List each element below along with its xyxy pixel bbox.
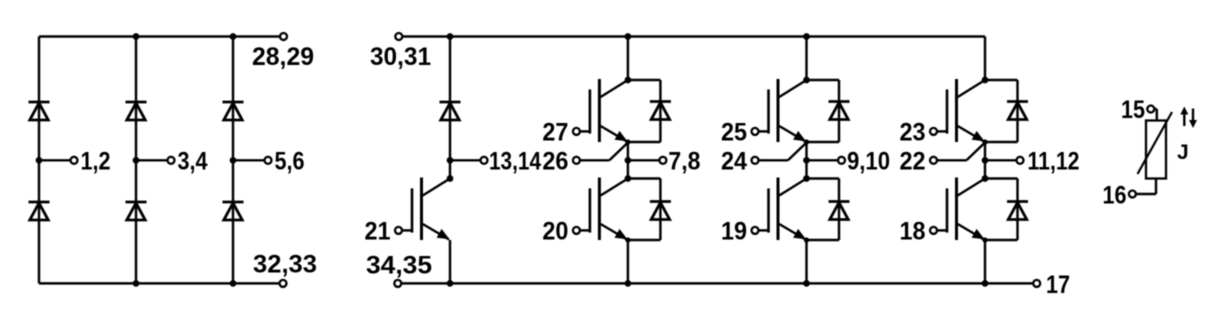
junction leg1 emitter node	[625, 139, 630, 144]
terminal 32,33	[280, 280, 287, 287]
diode D2	[126, 102, 147, 120]
wire phase stub 9,10	[807, 159, 838, 161]
diode D10 freewheel upper	[829, 102, 850, 120]
wire gate 25 lead	[758, 130, 769, 132]
diode D1	[29, 102, 50, 120]
junction leg1 phase node	[625, 157, 632, 164]
label 3,4	[178, 147, 208, 175]
wire leg2 diode branch return lower	[807, 239, 840, 241]
junction bottom bus leg3	[982, 280, 989, 287]
terminal 5,6	[265, 157, 272, 164]
label 22	[900, 147, 926, 175]
svg-text:26: 26	[542, 147, 568, 175]
junction leg1 top collector node	[625, 77, 632, 84]
label 15	[1121, 96, 1145, 124]
junction rectifier bottom leg2	[133, 280, 140, 287]
svg-text:27: 27	[542, 118, 568, 146]
wire rectifier top bus DC+	[39, 35, 284, 37]
label 5,6	[275, 147, 305, 175]
transistor Q1 upper IGBT	[590, 79, 628, 142]
label 16	[1103, 182, 1127, 210]
svg-text:20: 20	[542, 217, 568, 245]
wire aux 22 diagonal	[967, 143, 985, 160]
junction node AC2	[133, 157, 140, 164]
terminal 27 gate	[573, 128, 580, 135]
wire AC stub 2	[136, 159, 167, 161]
junction rectifier top leg3	[230, 33, 237, 40]
wire chopper collector	[449, 160, 451, 178]
thermistor J diagonal	[1138, 112, 1173, 174]
junction leg3 top collector node	[982, 77, 989, 84]
terminal 16	[1129, 191, 1136, 198]
wire leg2 diode branch top	[807, 79, 840, 81]
terminal 3,4	[168, 157, 175, 164]
wire gate 20 lead	[579, 229, 590, 231]
terminal 7,8	[659, 157, 666, 164]
junction top bus leg2	[803, 33, 810, 40]
terminal 28,29	[280, 33, 287, 40]
junction bottom bus leg2	[803, 280, 810, 287]
svg-text:13,14: 13,14	[489, 147, 541, 175]
terminal 11,12	[1017, 157, 1024, 164]
wire leg3 diode branch top	[985, 79, 1018, 81]
terminal 17	[1033, 280, 1040, 287]
svg-text:19: 19	[721, 217, 747, 245]
svg-text:18: 18	[900, 217, 926, 245]
junction top bus chopper	[447, 33, 454, 40]
wire rectifier leg 2	[135, 37, 137, 284]
svg-text:15: 15	[1121, 96, 1145, 124]
arrow up	[1180, 107, 1188, 127]
terminal 30,31	[395, 33, 402, 40]
transistor Q4 lower IGBT	[769, 178, 807, 241]
label 20	[542, 217, 568, 245]
junction leg2 bottom emitter node	[804, 237, 809, 242]
wire to terminal 17	[985, 282, 1033, 284]
wire rectifier leg 1	[38, 37, 40, 284]
label 30,31	[370, 43, 431, 71]
wire phase stub 7,8	[628, 159, 659, 161]
label 13,14	[489, 147, 541, 175]
diode D6	[223, 202, 244, 220]
wire leg1 diode branch bottom top	[628, 177, 661, 179]
svg-text:11,12: 11,12	[1028, 147, 1080, 175]
label 19	[721, 217, 747, 245]
junction chopper mid node	[447, 157, 454, 164]
diode D7 chopper	[440, 102, 461, 120]
diode D8 freewheel upper	[650, 102, 671, 120]
wire aux 26 diagonal	[609, 143, 627, 160]
terminal 13,14	[481, 157, 488, 164]
wire leg2 emitter drop	[805, 240, 807, 283]
terminal 23 gate	[930, 128, 937, 135]
label 26	[542, 147, 568, 175]
wire inverter top bus DC+	[402, 35, 985, 37]
label 23	[900, 118, 926, 146]
wire chopper leg upper	[449, 37, 451, 161]
thermistor J body	[1146, 121, 1166, 179]
wire leg2 diode branch vertical upper	[838, 80, 840, 142]
wire leg3 mid segment	[984, 142, 986, 179]
junction rectifier top leg2	[133, 33, 140, 40]
terminal 1,2	[71, 157, 78, 164]
terminal 24 aux emitter	[752, 157, 759, 164]
svg-text:1,2: 1,2	[81, 147, 111, 175]
diode D3	[223, 102, 244, 120]
terminal 21 gate	[395, 227, 402, 234]
svg-text:30,31: 30,31	[370, 43, 431, 71]
wire gate 19 lead	[758, 229, 769, 231]
label 25	[721, 118, 747, 146]
label 1,2	[81, 147, 111, 175]
wire leg1 diode branch return upper	[628, 141, 661, 143]
svg-text:34,35: 34,35	[366, 252, 432, 280]
junction bottom bus chopper	[447, 280, 454, 287]
wire leg2 diode branch bottom top	[807, 177, 840, 179]
wire phase stub 11,12	[985, 159, 1016, 161]
label 17	[1046, 271, 1070, 299]
wire leg1 collector drop	[627, 37, 629, 81]
junction leg3 emitter node	[982, 139, 987, 144]
wire leg1 diode branch return lower	[628, 239, 661, 241]
junction leg3 bottom collector node	[982, 175, 989, 182]
label 32,33	[253, 251, 317, 279]
diode D5	[126, 202, 147, 220]
label 24	[721, 147, 747, 175]
wire leg2 mid segment	[805, 142, 807, 179]
diode D9 freewheel lower	[650, 202, 671, 220]
junction leg1 bottom collector node	[625, 175, 632, 182]
svg-text:3,4: 3,4	[178, 147, 208, 175]
junction leg3 phase node	[982, 157, 989, 164]
junction chopper collector	[447, 175, 454, 182]
wire terminal 15 lead	[1154, 109, 1157, 121]
terminal 15	[1147, 106, 1154, 113]
junction leg2 bottom collector node	[803, 175, 810, 182]
svg-text:32,33: 32,33	[253, 251, 317, 279]
wire leg3 diode branch return lower	[985, 239, 1018, 241]
wire leg2 collector drop	[805, 37, 807, 81]
wire leg3 diode branch return upper	[985, 141, 1018, 143]
wire leg1 diode branch vertical upper	[659, 80, 661, 142]
diode D11 freewheel lower	[829, 202, 850, 220]
transistor Q3 upper IGBT	[769, 79, 807, 142]
transistor Q6 lower IGBT	[947, 178, 985, 241]
label 11,12	[1028, 147, 1080, 175]
wire rectifier bottom bus DC-	[39, 282, 283, 284]
junction node AC1	[36, 157, 43, 164]
terminal 25 gate	[752, 128, 759, 135]
arrow down	[1189, 109, 1197, 129]
junction rectifier bottom leg3	[230, 280, 237, 287]
wire terminal 16 lead	[1136, 179, 1156, 195]
wire leg3 collector drop	[984, 37, 986, 81]
label 28,29	[252, 43, 314, 71]
wire aux 24 lead	[758, 159, 788, 161]
terminal 20 gate	[573, 227, 580, 234]
svg-text:9,10: 9,10	[847, 147, 890, 175]
wire leg3 diode branch vertical lower	[1016, 179, 1018, 241]
diode D4	[29, 202, 50, 220]
transistor Q5 upper IGBT	[947, 79, 985, 142]
wire leg3 diode branch vertical upper	[1016, 80, 1018, 142]
svg-text:7,8: 7,8	[668, 147, 700, 175]
terminal 18 gate	[930, 227, 937, 234]
wire rectifier leg 3	[232, 37, 234, 284]
wire leg2 diode branch vertical lower	[838, 179, 840, 241]
diode D13 freewheel lower	[1007, 202, 1028, 220]
terminal 19 gate	[752, 227, 759, 234]
wire leg1 diode branch vertical lower	[659, 179, 661, 241]
junction top bus leg1	[625, 33, 632, 40]
wire aux 22 lead	[937, 159, 967, 161]
wire leg3 diode branch bottom top	[985, 177, 1018, 179]
svg-text:24: 24	[721, 147, 747, 175]
terminal 9,10	[838, 157, 845, 164]
wire gate 18 lead	[937, 229, 948, 231]
wire inverter bottom bus DC-	[401, 282, 985, 284]
transistor Q7 chopper IGBT	[412, 178, 450, 241]
wire gate 27 lead	[579, 130, 590, 132]
svg-text:17: 17	[1046, 271, 1070, 299]
wire leg1 mid segment	[627, 142, 629, 179]
transistor Q2 lower IGBT	[590, 178, 628, 241]
terminal 22 aux emitter	[930, 157, 937, 164]
label J	[1177, 141, 1189, 164]
wire leg1 emitter drop	[627, 240, 629, 283]
wire aux 24 diagonal	[788, 143, 806, 160]
svg-text:21: 21	[365, 217, 391, 245]
wire gate 21 lead	[402, 229, 412, 231]
wire chopper mid stub	[450, 159, 481, 161]
label 21	[365, 217, 391, 245]
wire AC stub 3	[233, 159, 264, 161]
svg-text:22: 22	[900, 147, 926, 175]
terminal 34,35	[394, 280, 401, 287]
wire chopper emitter	[449, 240, 451, 283]
svg-text:28,29: 28,29	[252, 43, 314, 71]
svg-text:5,6: 5,6	[275, 147, 305, 175]
junction leg1 bottom emitter node	[625, 237, 630, 242]
wire leg3 emitter drop	[984, 240, 986, 283]
label 9,10	[847, 147, 890, 175]
label 27	[542, 118, 568, 146]
svg-text:23: 23	[900, 118, 926, 146]
label 7,8	[668, 147, 700, 175]
junction leg2 top collector node	[803, 77, 810, 84]
label 34,35	[366, 252, 432, 280]
label 18	[900, 217, 926, 245]
junction bottom bus leg1	[625, 280, 632, 287]
junction leg2 emitter node	[804, 139, 809, 144]
wire AC stub 1	[39, 159, 70, 161]
svg-text:16: 16	[1103, 182, 1127, 210]
terminal 26 aux emitter	[573, 157, 580, 164]
junction leg3 bottom emitter node	[982, 237, 987, 242]
junction node AC3	[230, 157, 237, 164]
junction leg2 phase node	[803, 157, 810, 164]
wire aux 26 lead	[579, 159, 609, 161]
wire leg1 diode branch top	[628, 79, 661, 81]
wire leg2 diode branch return upper	[807, 141, 840, 143]
svg-text:25: 25	[721, 118, 747, 146]
diode D12 freewheel upper	[1007, 102, 1028, 120]
svg-text:J: J	[1177, 141, 1189, 164]
wire gate 23 lead	[937, 130, 948, 132]
